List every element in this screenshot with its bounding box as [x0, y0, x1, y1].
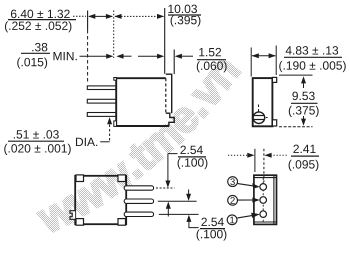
fraction bar 2.54 top — [178, 156, 206, 158]
side view top-left tab — [114, 78, 117, 81]
fraction bar .38 — [21, 52, 50, 54]
dimension 4.83±.13 text — [279, 46, 345, 72]
dim 2.41 extension dashed — [263, 149, 265, 182]
front view pin hole 3 — [260, 184, 267, 191]
dimension 2.54 bottom text — [197, 218, 227, 241]
arrow 1.52 left — [138, 55, 159, 57]
bottom view corner tab TR — [118, 175, 126, 182]
dim 2.41 leader dotted — [228, 154, 249, 156]
arrow .38 right (pointing left at body face) — [116, 54, 123, 59]
fraction bar 10.03 — [168, 14, 201, 16]
end view screw — [253, 112, 265, 124]
side view body — [116, 78, 169, 126]
dim 4.83 extension lines — [250, 48, 252, 77]
dim 2.54 top bracket and arrows — [168, 154, 178, 182]
dim 4.83 arrows — [252, 55, 275, 57]
dim arrows 6.40 — [89, 15, 112, 17]
circled pin number 3 — [228, 177, 238, 187]
dimension .51±.03 DIA text — [4, 130, 97, 155]
arrow 1.52 right — [175, 54, 182, 59]
extension line body left face (dotted) — [113, 11, 115, 59]
pin 1 leader arrow — [237, 215, 253, 218]
front view centerline dashed — [262, 178, 264, 222]
side view right rim — [166, 74, 174, 126]
fraction bar 9.53 — [291, 102, 318, 104]
front view pin hole 1 — [260, 211, 267, 218]
bottom view lead 3 — [124, 212, 153, 216]
circled pin number 2 — [228, 195, 238, 205]
end view centerline dashed — [258, 105, 260, 112]
pin 3 leader arrow — [238, 184, 254, 186]
side view bottom-left foot — [114, 121, 117, 127]
dimension 6.40±1.32 text — [5, 10, 71, 33]
bottom view corner tab BL — [76, 219, 84, 226]
fraction bar .51 — [8, 140, 64, 142]
dim 9.53 extension lines — [279, 74, 313, 76]
side view hidden edge dashed — [165, 78, 167, 113]
circled pin number 1 — [227, 215, 237, 225]
dim 2.54 bottom arrows and bracket — [188, 190, 190, 196]
fraction bar 2.41 — [291, 155, 319, 157]
bottom view lead 2 — [124, 199, 153, 203]
centerline lead 3 — [159, 213, 199, 215]
DIA leader arrow — [107, 117, 112, 124]
bottom view body — [75, 176, 126, 224]
dimension 9.53 text — [289, 92, 319, 117]
dimension .38 MIN text — [17, 43, 76, 69]
centerline lead 1 dashed — [156, 187, 175, 189]
centerline lead 2 — [158, 200, 197, 202]
side view lead 1 — [87, 86, 116, 90]
front view pin hole 2 — [260, 197, 267, 204]
fraction bar 6.40 — [8, 19, 76, 21]
dim 2.41 right arrow — [264, 153, 271, 158]
bottom view screw protrusion — [70, 211, 75, 220]
extension line rim outer — [173, 50, 175, 75]
dimension 10.03 text — [168, 5, 200, 27]
front view body — [254, 175, 277, 224]
pin 2 leader arrow — [238, 199, 254, 201]
fraction bar 2.54 bottom — [200, 228, 225, 230]
extension line body right face — [164, 8, 166, 74]
dim 2.41 extension solid — [254, 149, 256, 172]
end view bottom-right tab — [272, 120, 276, 126]
extension line lead tips — [87, 11, 89, 31]
side view lead 2 — [87, 99, 116, 103]
front view inner top line — [254, 177, 277, 179]
end view top-right tab — [272, 77, 276, 82]
dim 9.53 arrows — [301, 76, 306, 83]
dimension 1.52 text — [197, 48, 227, 72]
dimension 2.41 text — [289, 145, 319, 171]
bottom view corner tab BR — [118, 219, 126, 226]
fraction bar 4.83 — [284, 56, 342, 58]
end view body — [253, 78, 273, 126]
front view inner bottom line — [254, 221, 277, 223]
side view lead 3 — [87, 113, 116, 117]
bottom view corner tab TL — [76, 175, 84, 182]
leader dotted to dim 6.40 — [73, 15, 86, 17]
dim 2.41 left arrow — [247, 153, 254, 158]
dim arrows 10.03 (body width) — [115, 15, 164, 17]
dimension 2.54 top text — [178, 146, 208, 169]
front view inner right line — [273, 175, 275, 224]
arrow .38 min — [80, 55, 108, 57]
bottom view lead 1 — [124, 186, 153, 190]
fraction bar 1.52 — [197, 59, 226, 61]
